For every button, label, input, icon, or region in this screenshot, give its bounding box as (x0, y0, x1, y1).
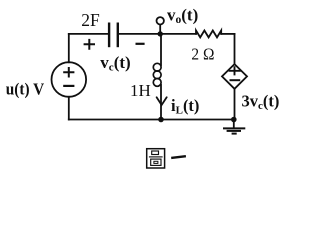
capacitor polarity minus (136, 43, 145, 45)
node vo terminal circle (157, 17, 164, 24)
inductor L coil 1H (153, 63, 161, 86)
wire left vertical bottom (68, 97, 70, 120)
wire inductor bottom lead (160, 85, 162, 120)
svg-text:vo(t): vo(t) (167, 6, 198, 27)
caption figure-one glyph tu (147, 149, 165, 168)
wire left vertical top (68, 34, 70, 62)
inductor current arrow head (157, 97, 167, 105)
svg-text:vc(t): vc(t) (100, 53, 130, 74)
dependent source diamond 3vc (222, 64, 247, 89)
svg-text:1H: 1H (130, 81, 151, 100)
junction bottom middle (158, 117, 164, 123)
wire cap to resistor (119, 33, 196, 35)
wire diamond to bottom (234, 89, 236, 120)
wire right vertical to diamond (234, 34, 236, 64)
wire resistor to right corner (221, 33, 234, 35)
svg-text:2F: 2F (81, 10, 100, 30)
caption figure-one glyph one (171, 156, 186, 158)
capacitor polarity plus (84, 39, 95, 50)
svg-text:2 Ω: 2 Ω (191, 44, 214, 63)
wire top-left horizontal (69, 33, 108, 35)
junction bottom right (231, 117, 237, 123)
wire terminal stub (159, 24, 161, 34)
capacitor C 2F plates (108, 23, 119, 48)
junction top middle (158, 31, 163, 36)
svg-text:u(t) V: u(t) V (6, 80, 44, 99)
resistor R 2ohm zigzag (196, 31, 221, 38)
svg-text:iL(t): iL(t) (171, 96, 199, 117)
wire inductor top lead (160, 34, 162, 65)
ground (223, 120, 245, 134)
voltage source U u(t) (52, 62, 87, 97)
wire bottom horizontal (69, 119, 234, 121)
